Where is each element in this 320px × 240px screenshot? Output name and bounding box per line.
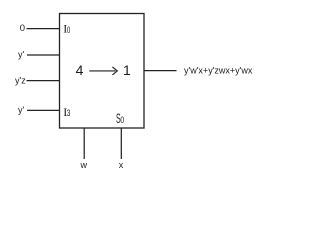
svg-text:w: w	[80, 160, 88, 170]
svg-text:0: 0	[20, 23, 25, 34]
svg-text:0: 0	[120, 115, 124, 125]
svg-text:y': y'	[18, 50, 25, 60]
svg-text:4: 4	[76, 62, 84, 78]
svg-text:0: 0	[67, 25, 71, 36]
svg-text:y'z: y'z	[15, 76, 26, 86]
svg-text:y': y'	[18, 105, 25, 115]
svg-text:x: x	[119, 160, 124, 170]
svg-text:3: 3	[67, 108, 71, 119]
svg-text:1: 1	[123, 62, 131, 78]
svg-text:y'w'x+y'zwx+y'wx: y'w'x+y'zwx+y'wx	[184, 66, 253, 76]
